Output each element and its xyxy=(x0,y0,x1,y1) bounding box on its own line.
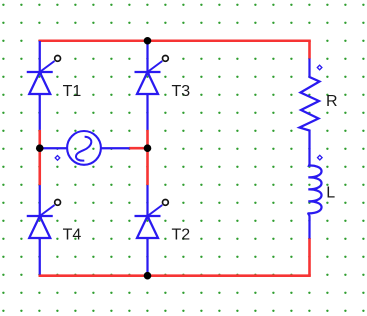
svg-text:T1: T1 xyxy=(63,83,82,100)
svg-text:T3: T3 xyxy=(172,83,191,100)
svg-text:R: R xyxy=(326,93,338,110)
svg-text:T2: T2 xyxy=(172,226,191,243)
svg-text:L: L xyxy=(326,184,335,201)
svg-text:T4: T4 xyxy=(63,226,82,243)
